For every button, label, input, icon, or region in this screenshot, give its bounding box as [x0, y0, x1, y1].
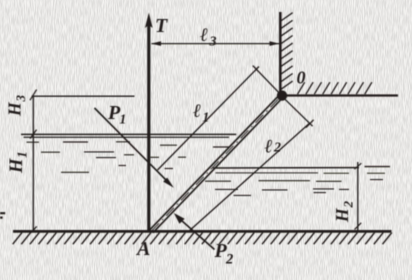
svg-text:0: 0 [297, 68, 306, 88]
svg-text:1: 1 [120, 112, 127, 127]
svg-text:2: 2 [225, 252, 233, 268]
svg-text:ℓ: ℓ [193, 101, 201, 122]
svg-text:2: 2 [273, 141, 281, 156]
svg-text:A: A [135, 238, 150, 260]
svg-text:ℓ: ℓ [200, 25, 208, 46]
svg-text:ℓ: ℓ [265, 137, 273, 158]
svg-text:3: 3 [209, 35, 217, 50]
svg-text:H: H [332, 207, 352, 223]
svg-text:H: H [5, 101, 25, 117]
svg-text:H: H [7, 158, 27, 174]
svg-text:T: T [155, 15, 168, 37]
svg-text:1: 1 [15, 151, 30, 158]
svg-text:2: 2 [341, 201, 356, 209]
svg-text:1: 1 [203, 110, 210, 125]
svg-text:3: 3 [13, 95, 28, 103]
